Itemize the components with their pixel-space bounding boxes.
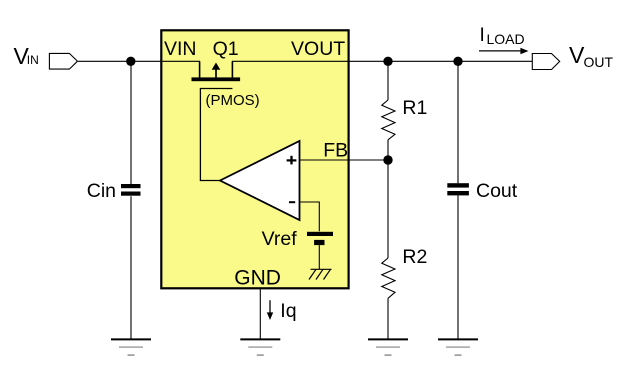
svg-text:I: I [480,25,485,46]
svg-text:R2: R2 [402,246,427,268]
svg-text:Iq: Iq [280,300,296,322]
svg-text:Q1: Q1 [213,38,239,60]
svg-text:VIN: VIN [164,38,197,60]
svg-text:R1: R1 [402,97,427,119]
svg-text:GND: GND [234,266,281,289]
svg-text:Vref: Vref [262,228,298,250]
svg-text:(PMOS): (PMOS) [206,92,260,109]
svg-text:OUT: OUT [584,54,614,70]
svg-text:VOUT: VOUT [291,38,345,60]
svg-text:IN: IN [27,53,39,67]
svg-text:Cin: Cin [87,180,116,202]
svg-text:FB: FB [323,140,348,162]
svg-text:LOAD: LOAD [487,31,525,47]
svg-text:Cout: Cout [476,180,518,202]
